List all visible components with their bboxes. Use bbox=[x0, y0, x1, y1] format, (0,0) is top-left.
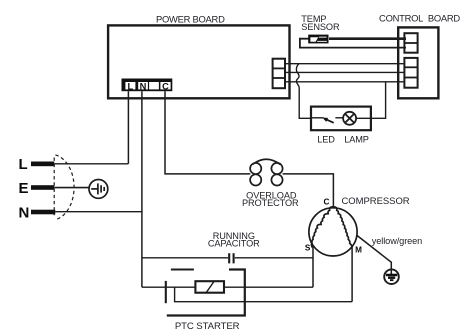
svg-text:yellow/green: yellow/green bbox=[372, 236, 422, 246]
yellow/green ground wire bbox=[357, 235, 392, 274]
led right wire bbox=[356, 82, 386, 119]
temp sensor wire top bbox=[329, 37, 406, 40]
wire L drop from strip bbox=[127, 91, 129, 164]
wire M branch bbox=[175, 287, 353, 302]
PTC starter box bbox=[167, 270, 245, 316]
svg-text:POWER BOARD: POWER BOARD bbox=[156, 13, 225, 24]
earth ground symbol in circle bbox=[89, 180, 108, 199]
svg-text:N: N bbox=[19, 205, 30, 222]
svg-text:PROTECTOR: PROTECTOR bbox=[242, 198, 299, 208]
terminal bar N bbox=[31, 210, 55, 215]
led lamp drop wire with hops bbox=[296, 64, 311, 118]
svg-text:L: L bbox=[19, 156, 28, 173]
wire M lead bbox=[351, 247, 353, 302]
compressor winding bbox=[311, 207, 333, 248]
svg-text:C: C bbox=[324, 197, 330, 206]
wire overload to compressor C bbox=[283, 174, 334, 208]
svg-text:LED: LED bbox=[317, 135, 335, 145]
svg-text:C: C bbox=[162, 81, 169, 91]
svg-text:N: N bbox=[140, 81, 147, 91]
svg-text:E: E bbox=[19, 180, 29, 197]
PTC resistor bbox=[195, 281, 224, 293]
power board box bbox=[108, 25, 289, 98]
wire L to power board bbox=[54, 163, 128, 165]
wire N drop from strip down to PTC corner bbox=[141, 91, 143, 287]
svg-text:LAMP: LAMP bbox=[344, 135, 369, 145]
svg-text:PTC STARTER: PTC STARTER bbox=[175, 321, 240, 332]
terminal bar L bbox=[31, 162, 54, 167]
wire N to junction bbox=[55, 211, 142, 213]
svg-text:COMPRESSOR: COMPRESSOR bbox=[342, 196, 410, 207]
overload protector symbol bbox=[250, 159, 283, 185]
svg-text:L: L bbox=[128, 81, 134, 91]
temp sensor loop wire bbox=[300, 39, 406, 48]
wire S lead bbox=[312, 246, 314, 288]
bundle wire 1 bbox=[285, 63, 406, 65]
svg-text:S: S bbox=[305, 243, 311, 252]
starter capacitor plate bar bbox=[165, 281, 167, 303]
running capacitor wire bbox=[142, 257, 313, 259]
running capacitor plates bbox=[229, 253, 233, 263]
svg-text:M: M bbox=[355, 246, 362, 255]
wire E to earth bbox=[54, 187, 89, 189]
temp sensor symbol bbox=[308, 35, 328, 44]
svg-text:SENSOR: SENSOR bbox=[301, 22, 340, 32]
plug outline dashed bbox=[54, 155, 74, 220]
terminal bar E bbox=[31, 185, 54, 190]
svg-text:CAPACITOR: CAPACITOR bbox=[208, 239, 260, 249]
lamp symbol bbox=[335, 112, 356, 125]
connector on power board right edge bbox=[273, 59, 285, 88]
bundle wire 3 bbox=[285, 81, 406, 83]
control board upper connector bbox=[404, 33, 417, 53]
starter plate horizontal bar bbox=[171, 268, 194, 270]
terminal strip on power board bbox=[122, 79, 173, 92]
wire N to PTC starter bbox=[142, 286, 313, 288]
svg-text:CONTROL BOARD: CONTROL BOARD bbox=[379, 13, 460, 24]
control board box bbox=[398, 27, 438, 98]
bundle wire 2 bbox=[285, 71, 406, 73]
wire C drop from strip to overload protector bbox=[165, 91, 250, 174]
control board lower connector bbox=[404, 58, 417, 88]
led switch bbox=[311, 118, 334, 123]
ground symbol in circle bbox=[384, 269, 399, 284]
led box bbox=[311, 107, 371, 131]
compressor circle bbox=[309, 208, 357, 256]
